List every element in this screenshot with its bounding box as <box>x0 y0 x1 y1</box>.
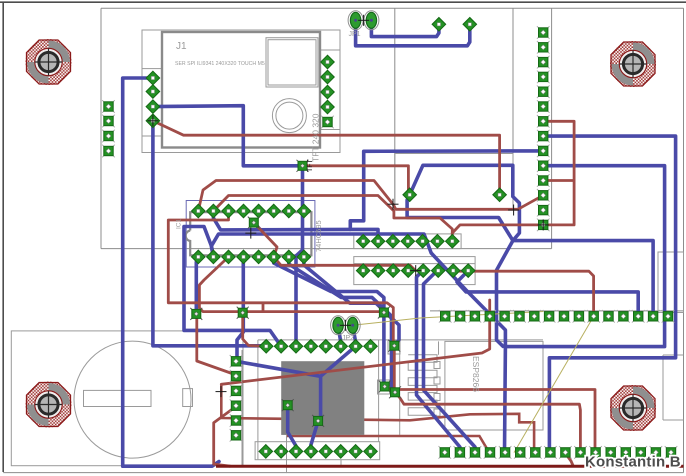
wire pad14 red left <box>452 225 543 233</box>
wire via196 down to pad col236 <box>197 315 236 376</box>
wire Y down chip via <box>318 376 321 421</box>
svg-text:J1: J1 <box>176 41 187 52</box>
ESP left col pads <box>230 355 243 368</box>
svg-text:TFT: TFT <box>307 158 314 172</box>
wire row B pad8 to y290 pad <box>457 271 638 317</box>
JP3 oval pads <box>331 316 346 335</box>
wire chip via to bottom pad <box>311 421 318 452</box>
wire pad to gnd line stub <box>565 452 573 465</box>
page border left <box>2 2 4 472</box>
wire J1 pad4 to module pad2 <box>153 121 500 195</box>
ESP antenna meander <box>408 355 437 416</box>
module U2 pads <box>403 188 417 202</box>
mounting hole H2 top-right <box>610 41 656 87</box>
wire row B pad5 down pair 1 <box>417 271 460 453</box>
wire row B to pad row y316 <box>460 271 594 316</box>
vias <box>297 160 309 172</box>
gray line below chip <box>286 436 288 473</box>
wire row B pad6 down pair 2 <box>424 271 476 453</box>
wire via384 right nest <box>385 387 595 453</box>
wire red diag across ESP <box>221 300 489 384</box>
battery holder outline <box>11 331 243 466</box>
frame divider v1 <box>394 8 396 209</box>
mounting hole H1 top-left <box>26 39 72 85</box>
wire IC pad2b diagonal to ESP body <box>211 234 505 346</box>
wire JP1 pad1 <box>356 20 470 46</box>
wire J1 pad1 long left vertical to battery bottom <box>123 78 219 466</box>
frame top <box>101 7 684 9</box>
ESP chip body (gray fill) <box>281 361 364 435</box>
long pad row y452 <box>439 446 452 459</box>
wire JP1 pad2 <box>371 20 439 36</box>
wire esp left col pad to bottom <box>214 407 236 467</box>
wire via395 right nest <box>395 392 580 452</box>
wire IC pad2b left L to ESP pad2 <box>184 227 281 347</box>
wire col pad11 bus <box>543 179 574 182</box>
wire via elbow <box>254 223 261 230</box>
wire via394 down <box>393 346 397 393</box>
wire IC pad1b to via196 <box>196 257 198 314</box>
wire serpentine col543 pad9 to row A pad2 <box>350 151 543 241</box>
wire IC pad8 bundle <box>304 257 399 346</box>
wire TFT via to module pad1 <box>303 166 409 195</box>
wire via to IC pad6b to row B <box>254 223 416 271</box>
svg-text:ESP8266: ESP8266 <box>471 356 481 392</box>
svg-text:Konstantin B: Konstantin B <box>585 454 681 471</box>
wire TFT via down to ESP pad3 <box>296 166 303 346</box>
frame divider v2 <box>512 8 514 209</box>
resistor row A outline <box>354 234 461 249</box>
wire IC pad2t staircase to row A pad7 <box>213 196 452 242</box>
airwire 1 <box>514 316 594 452</box>
bottom gray line <box>3 472 683 474</box>
svg-text:SER SPI ILI9341 240X320 TOUCH: SER SPI ILI9341 240X320 TOUCH M5 <box>175 61 265 67</box>
connector J1 outline <box>142 30 340 153</box>
wire IC pad1t staircase to col543 <box>198 181 543 212</box>
wire module pad1 up and over <box>410 165 520 240</box>
IC1 pads <box>191 204 205 218</box>
right side small gray boxes <box>658 252 684 420</box>
module U2 outline <box>395 154 513 210</box>
wire col543 pad8 right loop <box>543 136 675 452</box>
wire red jog x263 <box>262 304 265 312</box>
frame divider v3 <box>551 8 553 248</box>
resistor row B outline <box>354 257 475 285</box>
wire IC pad2t joining serpentine <box>213 211 350 230</box>
row A pads <box>356 234 370 248</box>
gray line above long pad row <box>430 310 684 312</box>
airwire 2 <box>353 312 544 326</box>
svg-text:74HC595: 74HC595 <box>314 220 323 252</box>
IC1 body <box>186 212 312 255</box>
page border top <box>0 1 686 3</box>
board outline dark red bottom <box>216 465 684 468</box>
wire J1 pad3 to TFT via <box>153 106 303 166</box>
wire via242 down to ESP pad <box>243 313 264 347</box>
J1 thick body rect <box>162 32 320 148</box>
mounting hole H4 bottom-right <box>610 385 656 431</box>
wire Y junction ESP <box>236 346 356 376</box>
IC1 blue selection rect <box>186 201 315 268</box>
mounting hole H3 bottom-left <box>26 382 72 428</box>
wire JP3 pad2 <box>353 325 356 346</box>
red trace under chip long <box>221 384 534 452</box>
frame mid horizontal <box>101 248 552 250</box>
wire chip pad to bottom pad <box>288 405 296 451</box>
wire junction to pad row right <box>513 241 653 317</box>
svg-text:IC1: IC1 <box>176 219 183 230</box>
ESP module outline <box>242 340 543 466</box>
connector J1 pads left <box>146 71 160 85</box>
svg-text:JP2: JP2 <box>342 335 354 342</box>
wire IC pad3t long staircase <box>168 211 394 346</box>
wire J1 pad4 down to ESP pad1 <box>153 121 266 346</box>
wire junction branch down <box>497 241 513 347</box>
wire IC pad6 bundle <box>274 257 384 387</box>
row B pads <box>356 264 370 278</box>
wire JP3 pad1 <box>338 325 341 346</box>
long pad row y316 <box>439 310 452 323</box>
wire module pad1 down to junction <box>407 195 513 241</box>
wire IC pad4b down <box>236 257 243 361</box>
header col x108 <box>102 100 115 113</box>
red trace chip to pad under chip <box>288 405 490 452</box>
ESP bottom row pads <box>259 444 273 458</box>
wire IC pad7 bundle <box>289 257 395 392</box>
svg-text:JP1: JP1 <box>349 31 361 38</box>
svg-text:TFT 240 320: TFT 240 320 <box>311 113 321 162</box>
frame left <box>100 8 102 248</box>
wire col pad7 bus <box>543 121 574 225</box>
ESP top row pads <box>259 339 273 353</box>
connector J1 pads right <box>321 55 335 69</box>
wire IC pad3b staircase <box>199 257 384 313</box>
frame right <box>683 8 685 472</box>
header col x543 <box>537 26 550 39</box>
wire col543 pad10 right loop <box>505 166 665 453</box>
JP1 oval pads <box>348 11 363 30</box>
